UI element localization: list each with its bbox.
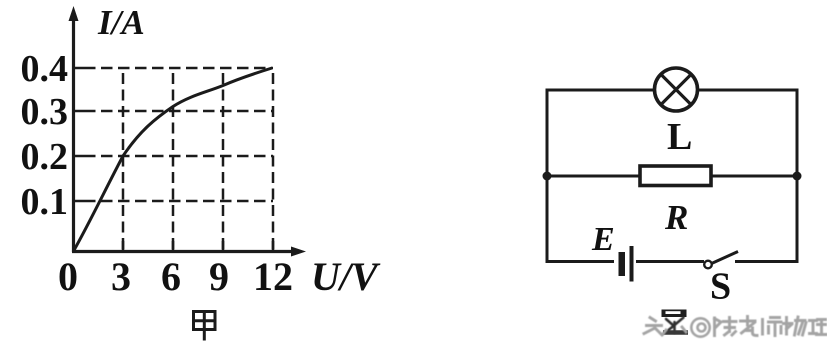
svg-text:S: S bbox=[710, 266, 731, 308]
svg-text:0: 0 bbox=[58, 254, 78, 299]
svg-text:0.1: 0.1 bbox=[21, 181, 69, 223]
svg-text:0.3: 0.3 bbox=[21, 91, 69, 133]
svg-text:I/A: I/A bbox=[97, 3, 145, 42]
svg-text:E: E bbox=[591, 221, 615, 258]
svg-text:3: 3 bbox=[111, 254, 131, 299]
svg-text:12: 12 bbox=[253, 254, 293, 299]
svg-text:R: R bbox=[664, 198, 688, 237]
svg-text:U/V: U/V bbox=[311, 254, 381, 299]
svg-text:0.2: 0.2 bbox=[21, 136, 69, 178]
svg-text:0.4: 0.4 bbox=[21, 48, 69, 90]
svg-text:9: 9 bbox=[209, 254, 229, 299]
svg-text:6: 6 bbox=[161, 254, 181, 299]
svg-text:L: L bbox=[667, 116, 692, 158]
